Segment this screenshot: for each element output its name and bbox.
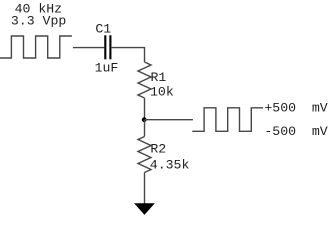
wire: source to C1 <box>73 47 104 49</box>
svg-text:10k: 10k <box>150 85 174 100</box>
wire: C1 to R1 top <box>111 48 144 62</box>
node junction dot <box>142 117 147 122</box>
output square-wave symbol <box>192 108 263 132</box>
svg-text:C1: C1 <box>95 22 111 37</box>
wire: node to R2 top <box>144 120 146 137</box>
svg-text:1uF: 1uF <box>95 60 119 75</box>
ground <box>135 204 154 214</box>
svg-text:-500 mV: -500 mV <box>264 124 327 139</box>
svg-text:3.3 Vpp: 3.3 Vpp <box>11 14 66 29</box>
resistor R2 <box>138 137 151 173</box>
svg-text:+500 mV: +500 mV <box>264 101 327 116</box>
svg-text:R2: R2 <box>150 142 166 157</box>
wire: node to output waveform <box>145 119 193 121</box>
svg-text:4.35k: 4.35k <box>150 157 190 172</box>
capacitor C1 <box>105 35 110 59</box>
svg-text:R1: R1 <box>151 70 167 85</box>
input square-wave source symbol <box>0 36 72 58</box>
wire: R2 bottom to ground <box>144 173 146 205</box>
resistor R1 <box>138 62 151 98</box>
wire: R1 bottom to node <box>144 98 146 120</box>
